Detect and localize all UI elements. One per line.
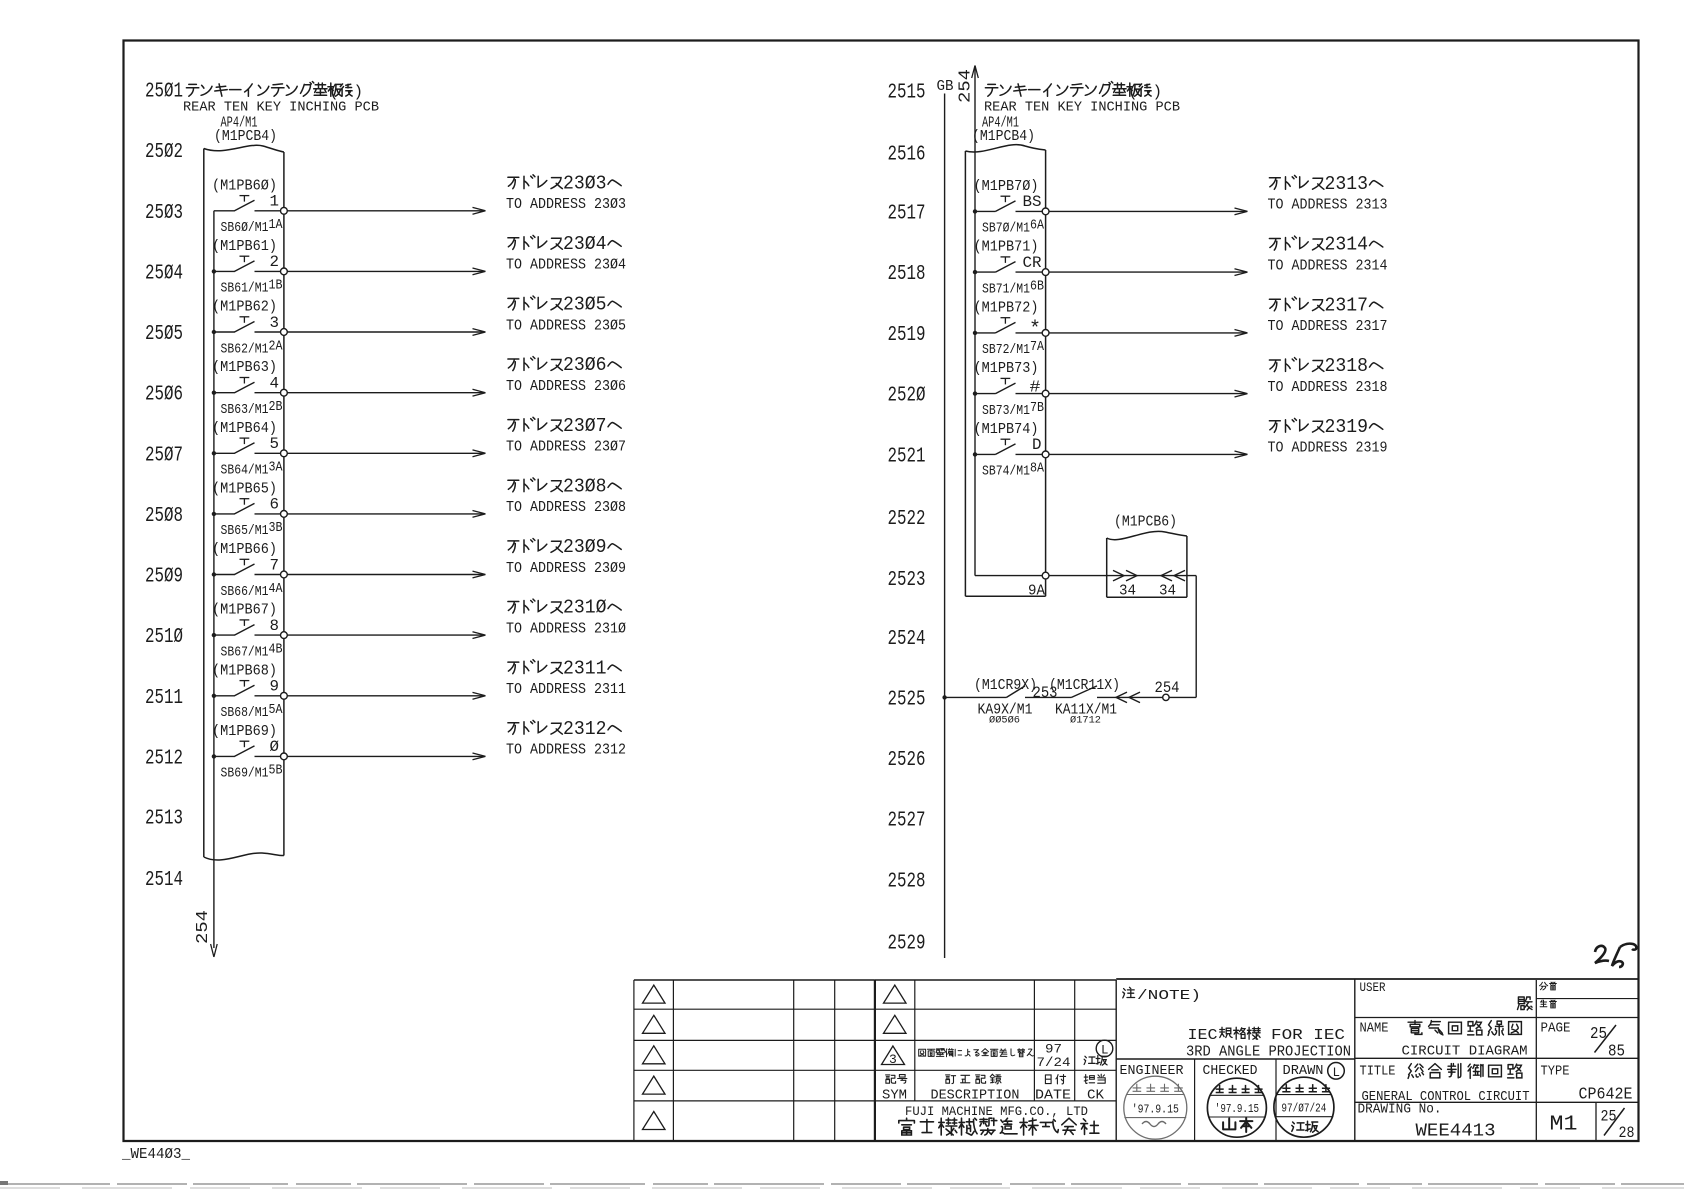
svg-text:(M1PB65): (M1PB65) [212,481,277,497]
net label 254 (left bottom) [193,910,212,944]
svg-text:3: 3 [270,314,280,332]
wire rung 2510 to address 2310 [287,632,485,639]
svg-text:CK: CK [1087,1089,1105,1104]
svg-text:WEE4413: WEE4413 [1416,1121,1496,1142]
svg-text:TO ADDRESS 2318: TO ADDRESS 2318 [1268,380,1388,396]
svg-text:3: 3 [889,1052,897,1067]
svg-text:REAR TEN KEY INCHING PCB: REAR TEN KEY INCHING PCB [984,100,1180,116]
destination label TO ADDRESS 2307 [506,440,626,456]
revision triangle A2 [643,1015,666,1033]
svg-text:TYPE: TYPE [1541,1065,1570,1080]
svg-text:TO ADDRESS 2312: TO ADDRESS 2312 [506,743,626,759]
destination label address 2312 (Japanese) [508,718,621,740]
svg-text:252Ø: 252Ø [888,384,926,408]
terminal 5 on PCB edge [281,450,288,457]
destination label TO ADDRESS 2318 [1268,380,1388,396]
destination label TO ADDRESS 2313 [1268,198,1388,214]
wire bus to terminal 9A [975,575,1042,577]
svg-text:7B: 7B [1030,400,1044,416]
svg-text:6A: 6A [1030,218,1044,234]
terminal 1 on PCB edge [281,207,288,214]
terminal 9A on PCB edge [1028,572,1049,599]
PCB designator AP4/M1 (right) [982,116,1019,132]
svg-text:2518: 2518 [888,262,926,286]
svg-text:25Ø3: 25Ø3 [145,201,183,225]
svg-text:SB69/M1: SB69/M1 [221,766,269,782]
header cell 記号/SYM [882,1075,907,1104]
terminal D on PCB edge [1042,451,1049,458]
svg-text:IEC: IEC [1188,1028,1218,1044]
destination label address 2311 (Japanese) [508,657,621,679]
svg-text:2312: 2312 [563,718,607,740]
svg-text:85: 85 [1608,1042,1625,1061]
line number 2502 [145,140,183,164]
header cell 担当/CK [1084,1074,1105,1103]
svg-text:SB64/M1: SB64/M1 [221,463,269,479]
sheet cell M1 [1550,1102,1597,1141]
terminal 3 on PCB edge [281,329,288,336]
svg-text:'97.9.15: '97.9.15 [1215,1103,1259,1116]
line number 2509 [145,565,183,589]
svg-text:2313: 2313 [1325,173,1369,195]
svg-text:SB72/M1: SB72/M1 [982,342,1030,358]
revision triangle A4 [643,1076,666,1094]
svg-text:): ) [1153,83,1163,101]
connector pin 34 (left, plug arrows) [1113,570,1137,599]
svg-text:TO ADDRESS 2319: TO ADDRESS 2319 [1268,441,1388,457]
svg-text:2522: 2522 [888,507,926,531]
sheet code WE4403 [121,1147,190,1163]
line number 2522 [888,507,926,531]
svg-text:TO ADDRESS 2314: TO ADDRESS 2314 [1268,258,1388,274]
line number 2514 [145,868,183,892]
destination label TO ADDRESS 2304 [506,258,626,274]
svg-text:Ø: Ø [270,738,280,756]
svg-text:2521: 2521 [888,444,926,468]
svg-text:TO ADDRESS 23Ø7: TO ADDRESS 23Ø7 [506,440,626,456]
svg-text:SB67/M1: SB67/M1 [221,644,269,660]
svg-text:REAR TEN KEY INCHING PCB: REAR TEN KEY INCHING PCB [183,100,379,116]
svg-text:/NOTE): /NOTE) [1137,988,1201,1004]
header cell 訂正記録/DESCRIPTION [931,1074,1020,1103]
line number 2527 [888,809,926,833]
wire rung 2505 to address 2305 [287,329,485,336]
svg-text:SB6Ø/M1: SB6Ø/M1 [221,220,269,236]
line number 2510 [145,625,183,649]
line number 2503 [145,201,183,225]
svg-text:2318: 2318 [1325,355,1369,377]
PCB title English (left) [183,100,379,116]
PCB title English (right) [984,100,1180,116]
TITLE cell [1355,1064,1639,1105]
svg-text:7: 7 [270,556,280,574]
svg-text:SB62/M1: SB62/M1 [221,341,269,357]
line number 2520 [888,384,926,408]
destination label address 2319 (Japanese) [1269,416,1382,438]
handwritten page number 25 [1595,944,1636,967]
header cell 日付/DATE [1035,1075,1071,1104]
NOTE box [1116,979,1638,1141]
svg-text:): ) [354,83,364,101]
svg-text:SB61/M1: SB61/M1 [221,281,269,297]
line number 2511 [145,686,183,710]
line number 2523 [888,568,926,592]
relay contact KA9X/M1 (M1CR9X) [974,678,1072,727]
DRAWING No. cell WEE4413 [1358,1103,1496,1142]
junction node bus/rung 2519 [973,331,977,335]
pushbutton SB60/M11A (M1PB60) key 1 [212,178,283,236]
relay contact KA11X/M1 (M1CR11X) [1049,678,1163,727]
wire rung 2520 to address 2318 [1049,390,1248,397]
pushbutton SB62/M12A (M1PB62) key 3 [212,300,283,358]
svg-text:DESCRIPTION: DESCRIPTION [931,1089,1020,1104]
company row FUJI MACHINE MFG.CO., LTD [905,1104,1088,1119]
svg-text:1B: 1B [269,278,283,294]
svg-text:SB63/M1: SB63/M1 [221,402,269,418]
svg-text:CIRCUIT DIAGRAM: CIRCUIT DIAGRAM [1402,1044,1528,1060]
PCB block M1PCB4 right: outline, wavy top, straight bottom [965,145,1045,597]
terminal 8 on PCB edge [281,632,288,639]
connector arrows on rung 2525 [1116,692,1140,703]
wire rung 2509 to address 2309 [287,571,485,578]
line number 2529 [888,932,926,956]
wire rung 2518 to address 2314 [1049,269,1248,276]
NAME cell [1355,1021,1639,1060]
svg-text:25Ø2: 25Ø2 [145,140,183,164]
svg-text:2519: 2519 [888,323,926,347]
destination label address 2318 (Japanese) [1269,355,1382,377]
svg-text:254: 254 [956,69,975,103]
bus wire GB [944,94,946,959]
destination label address 2314 (Japanese) [1269,234,1382,256]
line number 2513 [145,807,183,831]
company row 富士機械製造株式会社 [899,1118,1099,1135]
terminal CR on PCB edge [1042,269,1049,276]
revision 3 CK 江坂 [1084,1056,1107,1066]
destination label address 2307 (Japanese) [508,415,621,437]
terminal 4 on PCB edge [281,389,288,396]
junction node bus/rung 2520 [973,391,977,395]
svg-text:2525: 2525 [888,688,926,712]
junction node bus/rung 2508 [212,512,216,516]
svg-text:'97.9.15: '97.9.15 [1132,1103,1179,1116]
svg-text:NAME: NAME [1360,1022,1389,1037]
revision triangle A1 [643,985,666,1003]
svg-text:25Ø6: 25Ø6 [145,383,183,407]
terminal 2 on PCB edge [281,268,288,275]
terminal 6 on PCB edge [281,511,288,518]
svg-text:251Ø: 251Ø [145,625,183,649]
line number 2528 [888,870,926,894]
junction node bus/rung 2518 [973,270,977,274]
wire rung 2503 to address 2303 [287,207,485,214]
svg-text:(M1PB68): (M1PB68) [212,663,277,679]
terminal * on PCB edge [1042,330,1049,337]
pushbutton SB64/M13A (M1PB64) key 5 [212,421,283,479]
svg-text:5A: 5A [269,702,283,718]
TYPE cell CP642E [1541,1065,1633,1104]
svg-text:2314: 2314 [1325,234,1369,256]
pushbutton SB72/M17A (M1PB72) key * [974,300,1045,358]
pushbutton SB70/M16A (M1PB70) key BS [974,179,1045,237]
destination label TO ADDRESS 2311 [506,682,626,698]
line number 2524 [888,627,926,651]
svg-text:TITLE: TITLE [1360,1065,1396,1080]
wire rung 2508 to address 2308 [287,511,485,518]
revision table A [634,980,875,1141]
svg-text:3A: 3A [269,460,283,476]
svg-text:2A: 2A [269,338,283,354]
svg-text:5B: 5B [269,763,283,779]
node 253 [1033,684,1058,702]
destination label TO ADDRESS 2305 [506,318,626,334]
junction node bus/rung 2521 [973,452,977,456]
label DRAWN [1283,1063,1324,1079]
svg-text:(M1PB62): (M1PB62) [212,300,277,316]
destination label address 2309 (Japanese) [508,536,621,558]
wire rung 2519 to address 2317 [1049,330,1248,337]
svg-text:(: ( [1128,83,1138,101]
destination label address 2310 (Japanese) [508,597,621,619]
svg-text:(M1CR9X): (M1CR9X) [974,678,1037,694]
svg-text:1A: 1A [269,217,283,233]
svg-text:3RD ANGLE PROJECTION: 3RD ANGLE PROJECTION [1186,1045,1351,1061]
svg-text:231Ø: 231Ø [563,597,607,619]
pushbutton SB63/M12B (M1PB63) key 4 [212,360,283,418]
svg-text:2526: 2526 [888,748,926,772]
wire rung 2512 to address 2312 [287,753,485,760]
label 注/NOTE) [1123,987,1201,1004]
svg-text:DATE: DATE [1035,1089,1071,1104]
line number 2508 [145,504,183,528]
PCB title Japanese (right) [985,82,1162,102]
svg-text:2529: 2529 [888,932,926,956]
line number 2515 [888,81,926,105]
svg-text:TO ADDRESS 2317: TO ADDRESS 2317 [1268,319,1388,335]
line number 2521 [888,444,926,468]
svg-text:4A: 4A [269,581,283,597]
svg-text:TO ADDRESS 23Ø4: TO ADDRESS 23Ø4 [506,258,626,274]
destination label address 2306 (Japanese) [508,354,621,376]
svg-text:23Ø6: 23Ø6 [563,354,607,376]
PCB designator (M1PCB4) (right) [972,129,1035,145]
line number 2518 [888,262,926,286]
junction node bus/rung 2504 [212,269,216,273]
svg-text:Ø1712: Ø1712 [1070,715,1101,727]
destination label TO ADDRESS 2306 [506,379,626,395]
circled L mark (drawn) [1328,1063,1345,1081]
revision triangle A5 [643,1112,666,1130]
label (M1PCB6) [1114,515,1177,531]
wire rung 2506 to address 2306 [287,389,485,396]
approval section grid [1195,1059,1276,1141]
destination label TO ADDRESS 2314 [1268,258,1388,274]
cells 分番/生番 [1536,980,1638,1141]
line number 2517 [888,201,926,225]
destination label TO ADDRESS 2308 [506,500,626,516]
pushbutton SB65/M13B (M1PB65) key 6 [212,481,283,539]
destination label address 2308 (Japanese) [508,475,621,497]
line number 2519 [888,323,926,347]
junction node bus/rung 2509 [212,572,216,576]
net label 254 (right top) [956,69,975,103]
destination label TO ADDRESS 2310 [506,621,626,637]
svg-text:2528: 2528 [888,870,926,894]
stamp DRAWN 江坂 [1274,1077,1334,1137]
line number 2505 [145,322,183,346]
destination label TO ADDRESS 2317 [1268,319,1388,335]
svg-text:2515: 2515 [888,81,926,105]
USER cell [1355,981,1639,1018]
PCB designator AP4/M1 (left) [221,116,258,132]
svg-text:2511: 2511 [145,686,183,710]
svg-text:CR: CR [1023,254,1042,272]
svg-text:TO ADDRESS 23Ø8: TO ADDRESS 23Ø8 [506,500,626,516]
svg-text:GB: GB [937,79,954,95]
svg-text:(M1PB67): (M1PB67) [212,603,277,619]
svg-text:(M1PB63): (M1PB63) [212,360,277,376]
svg-text:23Ø4: 23Ø4 [563,233,607,255]
svg-text:(: ( [329,83,339,101]
svg-text:M1: M1 [1550,1114,1578,1137]
svg-text:8A: 8A [1030,461,1044,477]
destination label address 2304 (Japanese) [508,233,621,255]
svg-text:(M1PB66): (M1PB66) [212,542,277,558]
svg-text:254: 254 [193,910,212,944]
pushbutton SB66/M14A (M1PB66) key 7 [212,542,283,600]
svg-text:97/Ø7/24: 97/Ø7/24 [1281,1103,1326,1116]
svg-text:SB68/M1: SB68/M1 [221,705,269,721]
svg-text:2B: 2B [269,399,283,415]
wire rung 2504 to address 2304 [287,268,485,275]
bus wire 254 (right column, from arrow) [972,66,979,576]
destination label TO ADDRESS 2303 [506,197,626,213]
svg-text:9A: 9A [1028,584,1045,600]
svg-text:6: 6 [270,496,280,514]
line number 2507 [145,443,183,467]
stamp CHECKED 山本 [1207,1078,1266,1137]
svg-text:SB71/M1: SB71/M1 [982,281,1030,297]
svg-text:*: * [1029,318,1041,341]
svg-text:(M1PCB4): (M1PCB4) [214,129,277,145]
line number 2506 [145,383,183,407]
svg-text:(M1PB73): (M1PB73) [974,361,1039,377]
svg-text:CP642E: CP642E [1579,1085,1633,1104]
svg-text:28: 28 [1619,1124,1635,1142]
svg-text:SYM: SYM [882,1089,907,1104]
line number 2526 [888,748,926,772]
connector pin 34 (right, plug arrows) [1159,570,1185,599]
svg-text:(M1PB69): (M1PB69) [212,724,277,740]
destination label TO ADDRESS 2309 [506,561,626,577]
terminal 9 on PCB edge [281,692,288,699]
note text IEC規格機 FOR IEC [1188,1027,1346,1044]
destination label address 2305 (Japanese) [508,294,621,316]
svg-text:23Ø7: 23Ø7 [563,415,607,437]
PCB block M1PCB6 [1107,531,1187,597]
svg-text:2: 2 [270,253,280,271]
svg-text:L: L [1101,1044,1109,1058]
svg-text:2317: 2317 [1325,294,1369,316]
wire rung 2525 from GB bus [945,696,1007,698]
wire rung 2521 to address 2319 [1049,451,1248,458]
terminal BS on PCB edge [1042,208,1049,215]
svg-text:4B: 4B [269,641,283,657]
svg-text:5: 5 [270,435,280,453]
svg-text:4: 4 [270,375,280,393]
svg-text:ØØ5Ø6: ØØ5Ø6 [989,715,1020,727]
svg-text:USER: USER [1360,981,1386,995]
junction node bus/rung 2512 [212,754,216,758]
svg-text:#: # [1030,378,1041,397]
svg-text:2523: 2523 [888,568,926,592]
bus wire 254 (left column) [211,211,218,957]
svg-text:TO ADDRESS 23Ø9: TO ADDRESS 23Ø9 [506,561,626,577]
junction node bus/rung 2517 [973,209,977,213]
circled L mark (revision) [1096,1040,1113,1057]
svg-text:CHECKED: CHECKED [1203,1063,1258,1079]
svg-text:L: L [1333,1066,1341,1080]
label CHECKED [1203,1063,1258,1079]
note text 3RD ANGLE PROJECTION [1186,1045,1351,1061]
svg-text:(M1PB6Ø): (M1PB6Ø) [212,178,277,194]
svg-text:D: D [1032,436,1042,454]
svg-text:25Ø5: 25Ø5 [145,322,183,346]
revision triangle A3 [643,1046,666,1064]
svg-text:(M1PCB6): (M1PCB6) [1114,515,1177,531]
pushbutton SB69/M15B (M1PB69) key 0 [212,724,283,782]
svg-text:(M1PB74): (M1PB74) [974,422,1039,438]
svg-text:SB73/M1: SB73/M1 [982,403,1030,419]
svg-text:BS: BS [1023,193,1042,211]
line number 2504 [145,261,183,285]
wire rung 2511 to address 2311 [287,692,485,699]
junction node bus/rung 2505 [212,330,216,334]
node 254 terminal on rung 2525 [1155,679,1197,701]
terminal 0 on PCB edge [281,753,288,760]
svg-text:TO ADDRESS 2313: TO ADDRESS 2313 [1268,198,1388,214]
svg-text:25Ø8: 25Ø8 [145,504,183,528]
svg-text:(M1PB61): (M1PB61) [212,239,277,255]
svg-text:(M1PB72): (M1PB72) [974,300,1039,316]
svg-text:23Ø3: 23Ø3 [563,172,607,194]
svg-text:25Ø7: 25Ø7 [145,443,183,467]
svg-text:7A: 7A [1030,339,1044,355]
svg-text:DRAWING No.: DRAWING No. [1358,1103,1442,1118]
stamp ENGINEER [1124,1076,1187,1139]
svg-text:(M1PCB4): (M1PCB4) [972,129,1035,145]
svg-text:23Ø8: 23Ø8 [563,475,607,497]
svg-text:_WE44Ø3_: _WE44Ø3_ [121,1147,190,1163]
destination label address 2303 (Japanese) [508,172,621,194]
svg-text:2512: 2512 [145,746,183,770]
destination label address 2317 (Japanese) [1269,294,1382,316]
svg-text:2524: 2524 [888,627,926,651]
line number 2512 [145,746,183,770]
pushbutton SB68/M15A (M1PB68) key 9 [212,663,283,721]
svg-text:SB74/M1: SB74/M1 [982,464,1030,480]
svg-text:7/24: 7/24 [1037,1055,1071,1070]
scan page edge line [0,1183,1684,1188]
svg-text:TO ADDRESS 2311: TO ADDRESS 2311 [506,682,626,698]
destination label TO ADDRESS 2312 [506,743,626,759]
svg-text:SB7Ø/M1: SB7Ø/M1 [982,221,1030,237]
svg-text:34: 34 [1159,584,1176,600]
junction node bus/rung 2506 [212,391,216,395]
svg-text:TO ADDRESS 23Ø3: TO ADDRESS 23Ø3 [506,197,626,213]
svg-text:(M1PB64): (M1PB64) [212,421,277,437]
svg-text:2516: 2516 [888,143,926,167]
